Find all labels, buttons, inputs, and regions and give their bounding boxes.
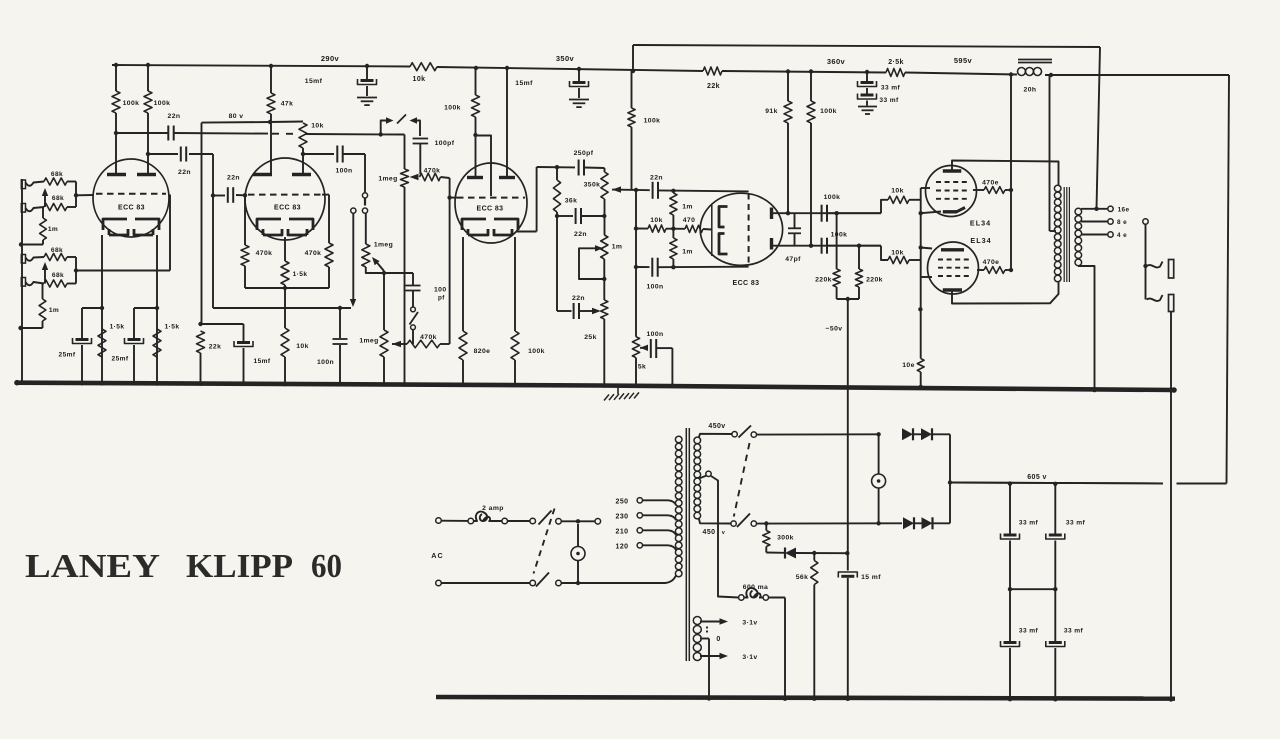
svg-text:15mf: 15mf bbox=[254, 358, 271, 365]
svg-text:1·5k: 1·5k bbox=[165, 324, 180, 331]
svg-text:470e: 470e bbox=[983, 259, 1000, 266]
svg-text:100k: 100k bbox=[123, 100, 140, 107]
svg-text:10e: 10e bbox=[902, 362, 915, 369]
svg-text:4 e: 4 e bbox=[1117, 232, 1127, 239]
svg-text:10k: 10k bbox=[413, 76, 426, 83]
svg-text:−50v: −50v bbox=[826, 326, 843, 333]
svg-text:220k: 220k bbox=[866, 277, 883, 284]
svg-text:470e: 470e bbox=[982, 180, 999, 187]
svg-text:22n: 22n bbox=[572, 295, 585, 302]
svg-text:1m: 1m bbox=[682, 204, 693, 211]
svg-text:470k: 470k bbox=[305, 250, 322, 257]
svg-text:100k: 100k bbox=[528, 348, 545, 355]
svg-text:605 v: 605 v bbox=[1027, 474, 1047, 481]
svg-text:290v: 290v bbox=[321, 54, 340, 63]
svg-text:10k: 10k bbox=[311, 123, 324, 130]
svg-text:470k: 470k bbox=[420, 334, 437, 341]
svg-text:100n: 100n bbox=[335, 168, 352, 175]
svg-text:470k: 470k bbox=[256, 250, 273, 257]
svg-text:22n: 22n bbox=[227, 175, 240, 182]
svg-text:210: 210 bbox=[616, 528, 629, 535]
svg-text:350v: 350v bbox=[556, 54, 575, 63]
svg-text:360v: 360v bbox=[827, 57, 846, 66]
svg-text:100k: 100k bbox=[820, 108, 837, 115]
svg-text:100n: 100n bbox=[646, 284, 663, 291]
svg-text:1·5k: 1·5k bbox=[110, 324, 125, 331]
svg-text:25mf: 25mf bbox=[59, 352, 76, 359]
svg-text:15mf: 15mf bbox=[515, 80, 533, 87]
svg-text:33 mf: 33 mf bbox=[1066, 520, 1086, 527]
svg-text:v: v bbox=[722, 530, 726, 536]
svg-text:100n: 100n bbox=[317, 359, 334, 366]
svg-text:10k: 10k bbox=[650, 217, 663, 224]
svg-text:15 mf: 15 mf bbox=[861, 574, 881, 581]
svg-text:ECC 83: ECC 83 bbox=[118, 205, 145, 212]
svg-text:ECC 83: ECC 83 bbox=[733, 280, 760, 287]
svg-text:1m: 1m bbox=[682, 249, 693, 256]
svg-text:47k: 47k bbox=[281, 101, 294, 108]
svg-text:EL34: EL34 bbox=[970, 236, 991, 245]
svg-text:3·1v: 3·1v bbox=[742, 620, 757, 627]
svg-text:AC: AC bbox=[431, 551, 443, 560]
svg-text:1m: 1m bbox=[48, 226, 58, 233]
svg-text:100k: 100k bbox=[154, 100, 171, 107]
svg-text:100: 100 bbox=[434, 287, 447, 294]
svg-text:100k: 100k bbox=[824, 194, 841, 201]
svg-text:2·5k: 2·5k bbox=[888, 59, 904, 66]
svg-text:250pf: 250pf bbox=[574, 150, 594, 157]
svg-text:10k: 10k bbox=[296, 343, 309, 350]
svg-text:100k: 100k bbox=[644, 118, 661, 125]
svg-text:pf: pf bbox=[438, 295, 445, 302]
svg-text:33 mf: 33 mf bbox=[1019, 520, 1039, 527]
svg-text:1m: 1m bbox=[49, 307, 59, 314]
svg-text:470k: 470k bbox=[424, 168, 441, 175]
svg-text:10k: 10k bbox=[891, 188, 904, 195]
svg-text:100pf: 100pf bbox=[435, 140, 455, 147]
svg-text:1m: 1m bbox=[612, 244, 623, 251]
svg-text:820e: 820e bbox=[474, 348, 491, 355]
svg-text:91k: 91k bbox=[765, 108, 778, 115]
svg-text:120: 120 bbox=[616, 543, 629, 550]
svg-text:22k: 22k bbox=[707, 83, 720, 90]
svg-text:LANEY: LANEY bbox=[25, 548, 160, 585]
svg-text:20h: 20h bbox=[1024, 87, 1037, 94]
svg-text:60: 60 bbox=[311, 548, 342, 585]
svg-text:22k: 22k bbox=[209, 344, 222, 351]
svg-text:EL34: EL34 bbox=[970, 219, 991, 228]
svg-text:220k: 220k bbox=[815, 277, 832, 284]
svg-text:2 amp: 2 amp bbox=[482, 505, 504, 512]
svg-text:5k: 5k bbox=[638, 364, 646, 371]
svg-text:33 mf: 33 mf bbox=[879, 97, 899, 104]
svg-text:250: 250 bbox=[616, 498, 629, 505]
svg-text:450v: 450v bbox=[708, 423, 725, 430]
svg-text:15mf: 15mf bbox=[305, 78, 323, 85]
svg-text:0: 0 bbox=[716, 636, 720, 643]
svg-text:300k: 300k bbox=[777, 535, 794, 542]
svg-text:68k: 68k bbox=[52, 195, 64, 202]
svg-text:33 mf: 33 mf bbox=[1064, 628, 1084, 635]
svg-text:3·1v: 3·1v bbox=[742, 654, 757, 661]
svg-text:100k: 100k bbox=[831, 232, 848, 239]
svg-text:25k: 25k bbox=[584, 334, 597, 341]
svg-text:1meg: 1meg bbox=[359, 338, 378, 345]
svg-text:450: 450 bbox=[703, 529, 716, 536]
svg-text:68k: 68k bbox=[51, 247, 63, 254]
svg-text:350k: 350k bbox=[584, 182, 601, 189]
svg-text:33 mf: 33 mf bbox=[1019, 628, 1039, 635]
svg-text:47pf: 47pf bbox=[785, 256, 801, 263]
svg-text:22n: 22n bbox=[178, 169, 191, 176]
svg-text:470: 470 bbox=[683, 217, 696, 224]
svg-text:22n: 22n bbox=[574, 231, 587, 238]
svg-text:KLIPP: KLIPP bbox=[186, 548, 293, 585]
svg-text:10k: 10k bbox=[891, 250, 904, 257]
svg-text:ECC 83: ECC 83 bbox=[274, 205, 301, 212]
svg-text:22n: 22n bbox=[168, 113, 181, 120]
svg-text:22n: 22n bbox=[650, 175, 663, 182]
svg-text:230: 230 bbox=[616, 513, 629, 520]
svg-text:56k: 56k bbox=[796, 574, 809, 581]
svg-text:100k: 100k bbox=[444, 105, 461, 112]
svg-text:1meg: 1meg bbox=[374, 242, 393, 249]
svg-text:36k: 36k bbox=[565, 198, 578, 205]
svg-text:ECC 83: ECC 83 bbox=[477, 206, 504, 213]
svg-text:68k: 68k bbox=[52, 272, 64, 279]
svg-text:33 mf: 33 mf bbox=[881, 85, 901, 92]
svg-text:16e: 16e bbox=[1118, 207, 1130, 214]
svg-text:1·5k: 1·5k bbox=[293, 271, 308, 278]
svg-text:595v: 595v bbox=[954, 56, 973, 65]
svg-text:80 v: 80 v bbox=[229, 113, 244, 120]
svg-text:68k: 68k bbox=[51, 171, 63, 178]
svg-text:600 ma: 600 ma bbox=[743, 584, 768, 591]
svg-text:8 e: 8 e bbox=[1117, 219, 1127, 226]
svg-text:1meg: 1meg bbox=[378, 176, 397, 183]
svg-text:25mf: 25mf bbox=[112, 356, 129, 363]
svg-text:100n: 100n bbox=[646, 331, 663, 338]
